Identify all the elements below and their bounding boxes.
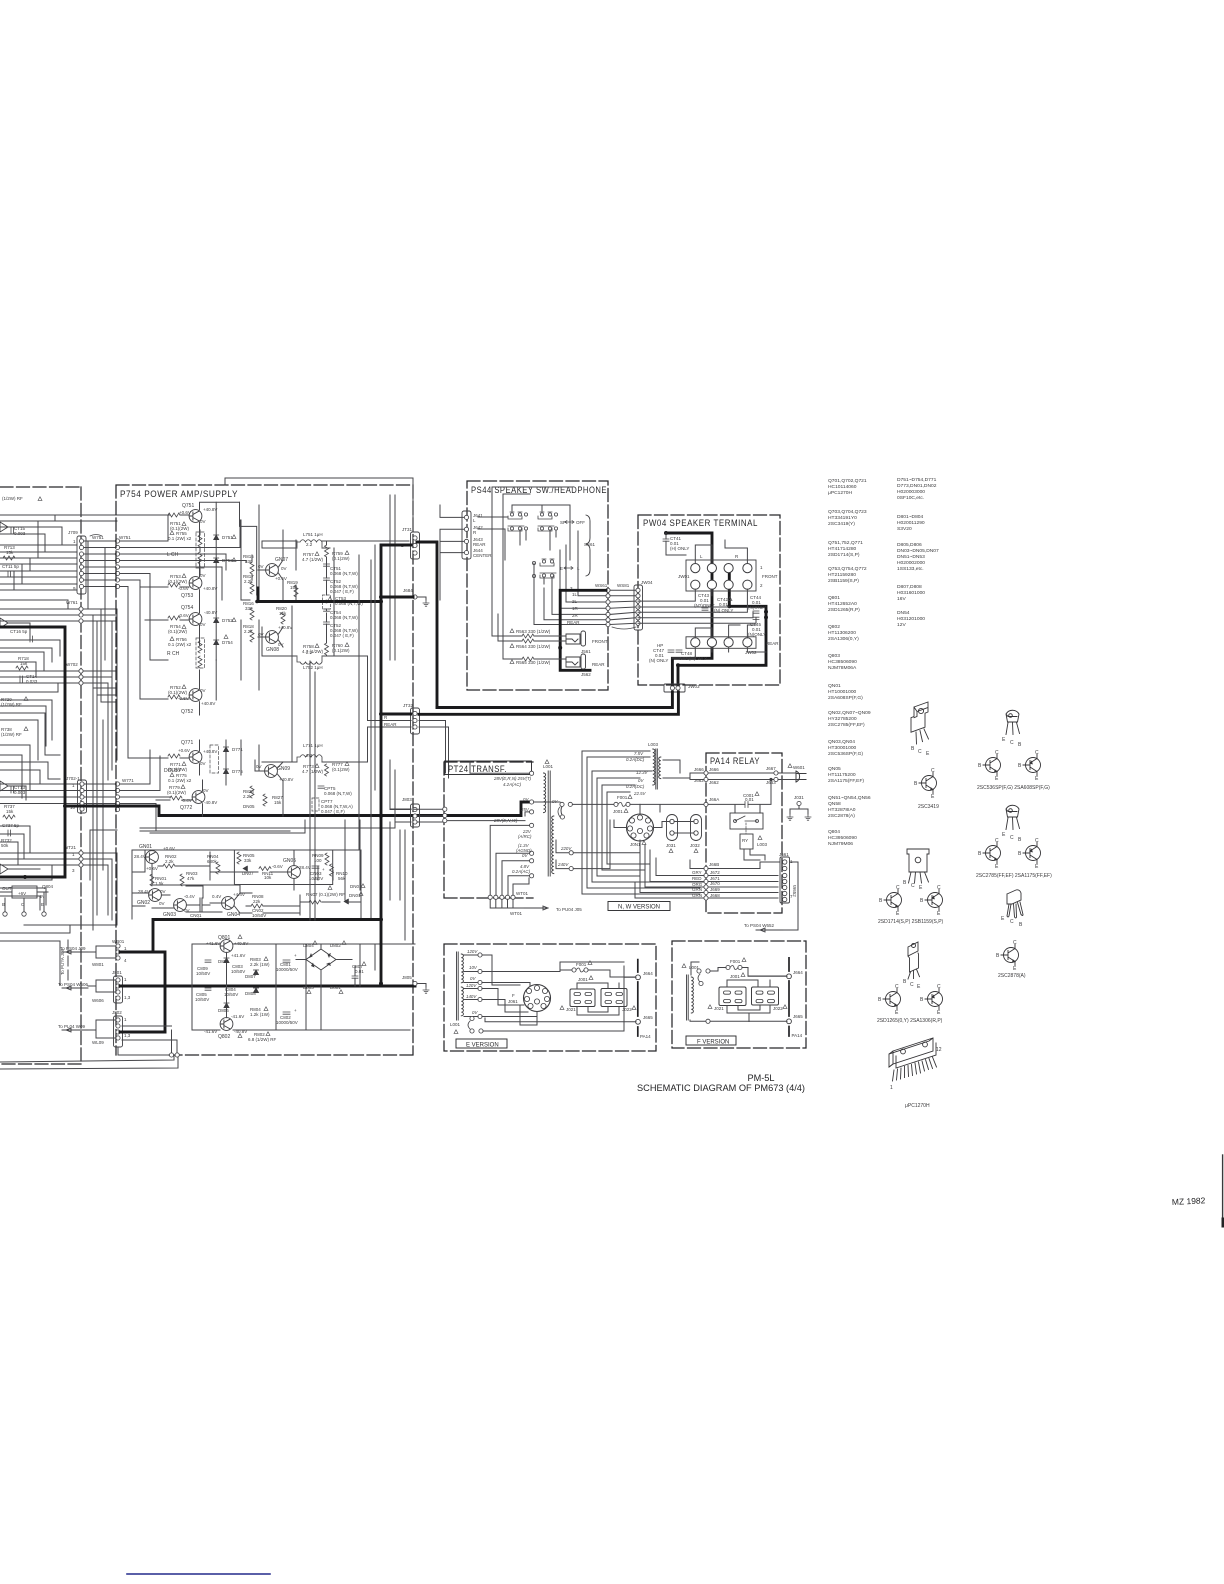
svg-text:0.01: 0.01: [719, 602, 728, 607]
svg-text:JT32: JT32: [403, 703, 414, 708]
svg-text:J666: J666: [709, 767, 719, 772]
svg-text:28V(E,R,N) 25V(T): 28V(E,R,N) 25V(T): [493, 776, 532, 781]
primary terminals: [530, 771, 534, 814]
connector J801: [112, 970, 131, 1000]
svg-text:0V: 0V: [200, 761, 206, 766]
svg-text:C: C: [1010, 740, 1014, 746]
diode D771: [223, 747, 228, 752]
svg-text:DN54: DN54: [897, 610, 910, 616]
svg-text:J662: J662: [694, 778, 704, 783]
svg-text:H020002000: H020002000: [897, 560, 925, 566]
svg-text:Q703,Q704,Q723: Q703,Q704,Q723: [828, 509, 867, 515]
svg-text:J031: J031: [794, 795, 804, 800]
regulator Q804: [2, 884, 54, 899]
svg-text:+: +: [294, 953, 297, 958]
svg-text:GN02: GN02: [137, 900, 150, 906]
N,W VERSION label box: [608, 902, 670, 911]
secondary terminals: [530, 823, 534, 878]
svg-text:+0.6V: +0.6V: [179, 510, 191, 515]
inductor L003: [648, 742, 659, 747]
resistor R804: [250, 1007, 270, 1017]
svg-text:Q701,Q702,Q721: Q701,Q702,Q721: [828, 478, 867, 484]
resistor R802: [248, 1032, 277, 1042]
svg-text:4.7 (1/2W): 4.7 (1/2W): [302, 769, 324, 774]
AC plug W601: [788, 764, 792, 768]
svg-text:SS61: SS61: [584, 542, 596, 547]
svg-text:Q752: Q752: [181, 709, 193, 715]
svg-text:(N)ONLY: (N)ONLY: [748, 632, 766, 637]
svg-text:QN58: QN58: [828, 801, 841, 807]
svg-text:+: +: [294, 1008, 297, 1013]
transistor GN08: [266, 647, 279, 653]
capacitor CT51: [330, 566, 358, 576]
svg-text:FRONT: FRONT: [762, 574, 778, 579]
E VERSION dashed box: [444, 944, 656, 1051]
svg-text:PW04 SPEAKER TERMINAL: PW04 SPEAKER TERMINAL: [643, 518, 758, 528]
diode D806: [218, 1008, 229, 1013]
OFF arrow label: [560, 520, 585, 525]
svg-text:Q802: Q802: [218, 1034, 230, 1040]
connector J661: [779, 852, 793, 899]
wire bundle W771 left: [0, 784, 115, 804]
svg-text:DN51~DN53: DN51~DN53: [897, 554, 925, 560]
svg-text:D773,DN01,DN02: D773,DN01,DN02: [897, 483, 937, 489]
wire 240V: [557, 862, 569, 867]
relay output wires: [692, 870, 703, 898]
resistor R815: [243, 554, 254, 564]
connector J666/J662: [694, 767, 704, 783]
svg-text:DOLBY: DOLBY: [164, 768, 182, 774]
package TO-220 2SD1714: [911, 702, 929, 744]
capacitor C809: [196, 966, 210, 976]
E PA14 boundary: [637, 960, 639, 1036]
svg-text:J665: J665: [793, 1014, 803, 1019]
svg-text:J803: J803: [402, 797, 412, 802]
connector JT31: [401, 527, 413, 548]
svg-text:10/50V: 10/50V: [195, 997, 209, 1002]
svg-text:12: 12: [936, 1047, 942, 1053]
regulator Q801: [218, 935, 230, 941]
parts list column 1: [828, 478, 871, 847]
svg-text:J001: J001: [613, 809, 623, 814]
svg-text:NJM78M06A: NJM78M06A: [828, 665, 857, 671]
svg-text:(N?)ONLY: (N?)ONLY: [694, 603, 715, 608]
capacitor CT43: [694, 593, 715, 608]
svg-text:(0.1)2W): (0.1)2W): [332, 767, 350, 772]
svg-text:10/50V: 10/50V: [224, 992, 238, 997]
svg-text:J562: J562: [581, 672, 591, 677]
svg-text:R563 330 (1/2W): R563 330 (1/2W): [516, 629, 551, 634]
resistor RN07b label: [306, 892, 345, 897]
protection block outline: [132, 831, 361, 919]
transistor GN09: [277, 766, 290, 772]
svg-text:C: C: [910, 982, 914, 988]
svg-text:J665: J665: [643, 1015, 653, 1020]
protection sub-box GN05: [234, 850, 332, 885]
svg-text:4.7 (1/2W): 4.7 (1/2W): [302, 649, 324, 654]
svg-text:HT10001000: HT10001000: [828, 689, 857, 695]
regulator Q802: [218, 1034, 230, 1040]
connector J684: [403, 588, 413, 593]
fuse L001 label: [543, 764, 554, 769]
capacitor CT52 group: [330, 579, 358, 594]
svg-text:0V: 0V: [200, 622, 206, 627]
capacitor CT41: [670, 536, 689, 551]
svg-text:L CH: L CH: [167, 552, 179, 558]
connector JW03: [688, 684, 700, 689]
svg-text:240V: 240V: [557, 862, 569, 867]
svg-text:R CH: R CH: [167, 651, 180, 657]
resistor R827: [272, 795, 283, 805]
connector J66A: [709, 797, 719, 802]
capacitor CT42: [714, 597, 733, 613]
svg-text:12V: 12V: [897, 622, 906, 628]
svg-text:PT24 TRANSF.: PT24 TRANSF.: [448, 764, 507, 774]
speaker terminal FRONT block: [686, 560, 756, 591]
label R720 RF: [1, 697, 22, 707]
svg-text:C: C: [895, 984, 899, 990]
svg-text:0.1 (2W) x2: 0.1 (2W) x2: [168, 778, 192, 783]
svg-text:C: C: [937, 984, 941, 990]
svg-text:D806: D806: [218, 1008, 229, 1013]
svg-text:2.2: 2.2: [306, 753, 313, 758]
svg-text:J001: J001: [578, 977, 588, 982]
svg-text:D807,D808: D807,D808: [897, 584, 922, 590]
svg-text:W702: W702: [66, 662, 78, 667]
resistor RN04: [207, 854, 219, 864]
svg-text:J802: J802: [112, 1010, 122, 1015]
svg-text:10000/50V: 10000/50V: [276, 967, 298, 972]
diode D775: [223, 769, 228, 774]
svg-text:R565 330 (1/2W): R565 330 (1/2W): [516, 660, 551, 665]
svg-text:HC39506090: HC39506090: [828, 835, 857, 841]
resistor RN11: [259, 867, 271, 871]
svg-text:F001: F001: [617, 795, 628, 800]
svg-text:Q751: Q751: [182, 503, 194, 509]
connector WB01: [112, 939, 127, 963]
svg-text:10000/50V: 10000/50V: [276, 1020, 298, 1025]
svg-text:-0.4V: -0.4V: [184, 894, 195, 899]
resistor R777: [332, 762, 350, 772]
svg-text:QN51~QN54,QN56: QN51~QN54,QN56: [828, 795, 871, 801]
resistor RN03: [186, 871, 198, 881]
svg-text:J684: J684: [403, 588, 413, 593]
svg-text:2.2k (1W): 2.2k (1W): [250, 962, 270, 967]
svg-text:2SC2878(A): 2SC2878(A): [828, 813, 855, 819]
svg-text:E: E: [41, 902, 44, 907]
fuse F001: [613, 795, 628, 814]
relay contact RY01: [730, 813, 763, 829]
svg-text:L003: L003: [757, 842, 768, 847]
svg-text:D751: D751: [222, 535, 233, 540]
label RF top: [2, 496, 23, 501]
wire bus: left input wires top cluster: [0, 515, 170, 590]
svg-text:GRN: GRN: [692, 893, 702, 898]
E wires: [482, 955, 624, 1031]
bold wires below JW03: [419, 692, 678, 714]
svg-text:RED: RED: [692, 876, 702, 881]
speaker terminal REAR block: [686, 637, 756, 649]
capacitor C803: [231, 964, 245, 974]
transistor Q753: [181, 593, 193, 599]
left board dashed border: [0, 487, 81, 1064]
svg-text:2SB1159(S,P): 2SB1159(S,P): [828, 578, 859, 584]
svg-text:J664: J664: [643, 971, 653, 976]
svg-text:0.2A(DC): 0.2A(DC): [626, 757, 645, 762]
connector J803: [402, 797, 412, 802]
svg-text:+40.8V: +40.8V: [278, 625, 292, 630]
bracket SS61: [586, 515, 590, 576]
transistor Q751: [182, 503, 194, 509]
resistor R820: [276, 606, 287, 616]
capacitor CT53 dashed optional: [323, 595, 331, 609]
svg-text:C: C: [995, 750, 999, 756]
svg-text:0SF10C,etc.: 0SF10C,etc.: [897, 495, 924, 501]
svg-text:15k: 15k: [274, 800, 282, 805]
svg-text:D802: D802: [330, 943, 341, 948]
svg-text:-40.8V: -40.8V: [204, 610, 217, 615]
svg-text:W771: W771: [122, 778, 134, 783]
svg-text:7.5V: 7.5V: [634, 751, 644, 756]
svg-text:Q771: Q771: [181, 740, 193, 746]
svg-text:WT01: WT01: [510, 911, 522, 916]
svg-text:HT11175200: HT11175200: [828, 772, 856, 778]
resistor R565: [516, 660, 551, 665]
svg-text:To PU04 J05: To PU04 J05: [556, 907, 582, 912]
symbol 2SA608SP: [1023, 755, 1041, 776]
svg-text:JT31: JT31: [402, 527, 413, 532]
headphone switch S3 rear: [532, 559, 556, 578]
diode D807: [245, 974, 256, 979]
svg-text:220V: 220V: [560, 846, 572, 851]
connector J667/J663: [766, 766, 776, 785]
svg-text:120V: 120V: [467, 949, 478, 954]
svg-text:10V: 10V: [469, 965, 478, 970]
svg-text:J801: J801: [112, 970, 122, 975]
svg-text:GN08: GN08: [266, 647, 279, 653]
svg-text:J021: J021: [566, 1007, 576, 1012]
svg-text:D751~D754,D771: D751~D754,D771: [897, 477, 937, 483]
wire bus: left vertical joins top: [14, 515, 62, 590]
bold JT31 exit: [381, 542, 437, 984]
svg-text:0V: 0V: [258, 564, 264, 569]
svg-text:To PL04 W09: To PL04 W09: [58, 1024, 86, 1029]
capacitor C737: [2, 823, 20, 828]
svg-text:10/50V: 10/50V: [309, 876, 323, 881]
capacitor CT47: [649, 643, 668, 663]
resistor R819: [287, 580, 298, 590]
svg-text:To PS04 J09: To PS04 J09: [60, 946, 86, 951]
svg-text:47k: 47k: [187, 876, 195, 881]
svg-text:15k: 15k: [6, 550, 14, 555]
svg-text:WS81: WS81: [617, 583, 630, 588]
capacitor C807: [352, 964, 364, 974]
svg-text:CENTER: CENTER: [473, 553, 492, 558]
E-L arrow label: [560, 566, 580, 571]
headphone jack REAR J562: [566, 657, 580, 667]
PW04 SPEAKER TERMINAL dashed box: [638, 515, 780, 685]
svg-text:0V: 0V: [200, 688, 206, 693]
resistor R818: [243, 624, 254, 634]
svg-text:GN04: GN04: [227, 912, 240, 918]
bold protection ground rail: [153, 920, 381, 953]
svg-text:H031601000: H031601000: [897, 590, 925, 596]
svg-text:0.003: 0.003: [14, 531, 26, 536]
voltage selector wire 0V: [560, 802, 573, 819]
bold main supply rail: [120, 985, 415, 988]
svg-text:MZ 1982: MZ 1982: [1172, 1195, 1206, 1207]
svg-text:Q754: Q754: [181, 605, 193, 611]
wire bus mid-left loops: [0, 713, 60, 798]
svg-text:L003: L003: [648, 742, 659, 747]
svg-text:0.01: 0.01: [355, 969, 364, 974]
symbol 2SC3419: [919, 773, 937, 794]
svg-text:REAR: REAR: [766, 641, 779, 646]
F J664 terminal: [793, 970, 803, 975]
svg-text:μPC1270H: μPC1270H: [905, 1103, 930, 1109]
svg-text:2R: 2R: [572, 613, 579, 618]
svg-text:REAR: REAR: [384, 722, 397, 727]
svg-text:C: C: [1010, 835, 1014, 841]
svg-text:J667: J667: [766, 766, 776, 771]
svg-text:(A/RC): (A/RC): [518, 834, 532, 839]
svg-text:2SD1265(R,P): 2SD1265(R,P): [828, 607, 860, 613]
wire bus left mid cluster: [0, 600, 68, 910]
svg-text:N, W VERSION: N, W VERSION: [618, 905, 660, 911]
svg-text:(1/2W) RF: (1/2W) RF: [2, 496, 23, 501]
symbol 2SC2878: [1001, 945, 1019, 966]
svg-text:FRONT: FRONT: [592, 639, 608, 644]
svg-text:0.01 (N)ONLY: 0.01 (N)ONLY: [679, 656, 707, 661]
shorting plug J032: [691, 815, 702, 841]
symbol 2SC536SP: [983, 755, 1001, 776]
svg-text:2SC2878(A): 2SC2878(A): [998, 973, 1026, 979]
svg-text:10/50V: 10/50V: [231, 969, 245, 974]
svg-text:D754: D754: [222, 640, 233, 645]
svg-text:0V: 0V: [258, 632, 264, 637]
label R738 RF: [1, 727, 22, 737]
headphone switch S2 front: [538, 512, 558, 531]
PA14 RELAY dashed box: [706, 753, 782, 913]
resistor R732: [1, 838, 12, 848]
bold L-ch output wire: [258, 588, 381, 602]
wire speaker R out: [262, 606, 350, 762]
svg-text:C: C: [1035, 838, 1039, 844]
svg-text:0V: 0V: [159, 901, 165, 906]
svg-text:C: C: [918, 749, 922, 755]
F VERSION dashed box: [672, 941, 806, 1048]
wire fan from W771 into P754: [120, 750, 170, 830]
capacitor CT52b: [330, 623, 358, 638]
schematic content injected below: [0, 477, 1223, 1574]
page right edge line: [1222, 1155, 1224, 1225]
bridge rectifier D801-D804: [306, 949, 336, 970]
svg-text:S3V20: S3V20: [897, 526, 912, 532]
svg-text:SCHEMATIC DIAGRAM OF PM673: SCHEMATIC DIAGRAM OF PM673 (4/4): [637, 1083, 805, 1094]
connector J802: [112, 1010, 131, 1038]
svg-text:WT01: WT01: [516, 891, 528, 896]
svg-text:HC10114060: HC10114060: [828, 484, 857, 490]
svg-text:+40.8V: +40.8V: [203, 586, 217, 591]
E relay box J022: [601, 989, 627, 1007]
F relay box J022: [752, 987, 779, 1005]
wire above P754: [225, 478, 413, 531]
resistor R759: [332, 551, 350, 561]
PS44 SPEAKEY SW./HEADPHONE dashed box: [467, 481, 608, 690]
svg-text:22.5V: 22.5V: [633, 791, 647, 796]
capacitor CT14: [26, 674, 38, 684]
capacitor CT48: [679, 651, 707, 661]
svg-text:J66A: J66A: [709, 797, 719, 802]
svg-text:GN03: GN03: [163, 912, 176, 918]
svg-text:-40.8V: -40.8V: [204, 800, 217, 805]
svg-text:2.2k: 2.2k: [165, 859, 174, 864]
svg-text:L752 1μH: L752 1μH: [303, 665, 323, 670]
capacitor CN02: [252, 908, 266, 918]
svg-text:10k: 10k: [264, 875, 272, 880]
svg-text:μPC1270H: μPC1270H: [828, 490, 852, 496]
bold power wire left loop: [0, 627, 65, 877]
PT24 TRANSF dashed box: [444, 762, 533, 898]
svg-text:2SA1306(0,Y): 2SA1306(0,Y): [828, 636, 859, 642]
resistor R760: [332, 643, 350, 653]
E fuse F001: [576, 962, 588, 982]
wires into J641-644: [440, 505, 464, 600]
svg-text:0V: 0V: [281, 566, 287, 571]
svg-text:(0.1)(2W): (0.1)(2W): [168, 690, 188, 695]
svg-text:NJM79M06: NJM79M06: [828, 841, 853, 847]
svg-text:0.4V: 0.4V: [212, 894, 221, 899]
svg-text:JW01: JW01: [678, 574, 690, 579]
resistor RN02: [165, 854, 177, 864]
inductor L752: [303, 665, 323, 670]
svg-text:1: 1: [890, 1085, 893, 1091]
svg-text:J001: J001: [730, 974, 740, 979]
resistor R773: [302, 764, 324, 774]
svg-text:D801~D804: D801~D804: [897, 514, 924, 520]
E relay box J021: [570, 989, 595, 1007]
capacitor CPT5: [324, 786, 352, 796]
svg-text:2SC3419(Y): 2SC3419(Y): [828, 521, 855, 527]
svg-text:33k: 33k: [244, 858, 252, 863]
svg-text:CT11 5p: CT11 5p: [2, 564, 19, 569]
E VERSION label box: [456, 1039, 507, 1048]
transformer core: [548, 771, 550, 876]
svg-text:To PS04 W652: To PS04 W652: [744, 923, 775, 928]
svg-text:0.1 (2W) x2: 0.1 (2W) x2: [168, 642, 192, 647]
svg-text:E VERSION: E VERSION: [466, 1043, 499, 1049]
transformer PT24 secondary: [552, 816, 554, 874]
bottom terminal row WT01: [488, 895, 515, 899]
bottom blue rule: [127, 1573, 270, 1575]
symbol 2SB1159: [925, 890, 943, 911]
svg-text:To PS04 W606: To PS04 W606: [58, 982, 89, 987]
diode D808: [245, 991, 256, 996]
svg-text:D803: D803: [303, 985, 314, 990]
connector column W751 on P754 edge: [115, 539, 119, 589]
svg-text:(H) ONLY: (H) ONLY: [670, 546, 689, 551]
svg-text:D753: D753: [222, 558, 233, 563]
svg-text:0.2A(AC): 0.2A(AC): [512, 869, 531, 874]
op-amp U-T1: [0, 522, 8, 874]
svg-text:J0N1: J0N1: [630, 842, 641, 847]
svg-text:-41.6V: -41.6V: [231, 1014, 244, 1019]
wire bus W702: [66, 662, 78, 667]
svg-text:+40.8V: +40.8V: [203, 507, 217, 512]
inductor L771: [303, 743, 323, 748]
svg-text:C: C: [896, 885, 900, 891]
F J665 terminal: [793, 1014, 803, 1019]
